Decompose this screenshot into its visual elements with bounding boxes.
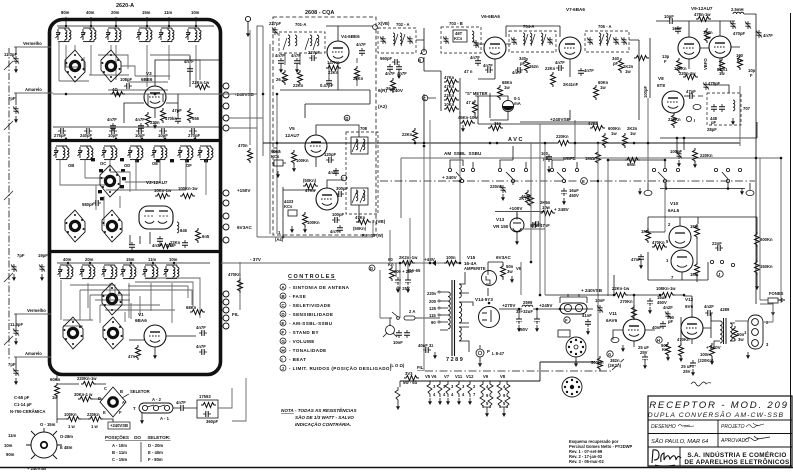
svg-text:22Kn: 22Kn [402,132,413,137]
svg-text:V8: V8 [658,76,664,81]
svg-text:A - 10m: A - 10m [112,443,127,448]
svg-text:X(VB): X(VB) [378,21,390,26]
svg-text:+ 240VSB: + 240VSB [581,288,603,293]
svg-text:C: C [104,386,107,391]
svg-text:220v: 220v [427,291,437,296]
svg-text:V2-12AU7: V2-12AU7 [146,180,168,185]
svg-text:H: H [657,338,660,343]
svg-text:6T8: 6T8 [657,83,665,88]
svg-text:Vermelho: Vermelho [27,308,46,313]
svg-text:100n: 100n [700,352,710,357]
svg-text:220n-1w: 220n-1w [679,71,696,76]
svg-text:V9-12AU7: V9-12AU7 [691,6,713,11]
svg-text:2K2n -1w: 2K2n -1w [399,255,418,260]
svg-text:470n: 470n [238,143,248,148]
svg-text:470pF: 470pF [733,31,746,36]
svg-text:C - 15m: C - 15m [112,457,127,462]
svg-text:PROJETO: PROJETO [721,424,745,430]
svg-text:30Kn-1 w: 30Kn-1 w [74,392,93,397]
svg-text:120pF: 120pF [324,152,337,157]
svg-text:20m: 20m [111,10,120,15]
svg-text:FIL: FIL [417,365,424,370]
svg-text:P: P [487,349,490,354]
svg-text:OF: OF [186,163,192,168]
svg-text:11m: 11m [148,257,156,262]
svg-text:3w: 3w [738,337,744,342]
svg-text:V12: V12 [466,374,474,379]
svg-text:227pF: 227pF [269,21,282,26]
svg-text:11m: 11m [164,10,172,15]
svg-text:100n: 100n [446,255,456,260]
svg-text:150Kn: 150Kn [760,264,773,269]
svg-text:SELETOR: SELETOR [130,389,150,394]
svg-text:10nF: 10nF [393,340,403,345]
svg-text:B: B [281,294,285,299]
svg-text:270pF: 270pF [188,133,201,138]
svg-text:V13: V13 [496,217,505,222]
svg-text:47Kn: 47Kn [355,215,366,220]
svg-text:V8: V8 [500,374,506,379]
svg-text:4n7F: 4n7F [176,400,186,405]
svg-text:I: I [342,176,343,181]
svg-text:E: E [103,410,106,415]
svg-text:E: E [582,179,585,184]
svg-text:6AL5: 6AL5 [668,208,680,213]
svg-text:10Kn: 10Kn [444,102,455,107]
svg-text:4n7F: 4n7F [584,68,594,73]
svg-text:1w: 1w [600,85,606,90]
svg-text:45Kn-10w: 45Kn-10w [458,115,478,120]
svg-text:+ 248V: + 248V [554,207,570,212]
svg-text:1Mn: 1Mn [690,224,699,229]
svg-text:4289: 4289 [720,307,730,312]
svg-text:- VOLUME: - VOLUME [289,339,315,344]
svg-text:- BEAT: - BEAT [289,357,306,362]
svg-text:H: H [281,348,285,353]
svg-text:22Kn: 22Kn [328,70,339,75]
svg-text:Kn: Kn [388,262,394,267]
svg-text:Amarelo: Amarelo [25,351,42,356]
svg-text:+ 240V: + 240V [442,175,458,180]
svg-text:1w: 1w [504,85,510,90]
svg-text:90: 90 [431,320,436,325]
svg-text:220Kn: 220Kn [668,117,681,122]
svg-text:4n7F: 4n7F [763,33,773,38]
svg-text:3w: 3w [507,269,513,274]
svg-text:115: 115 [429,313,436,318]
svg-text:V15: V15 [467,255,476,260]
svg-text:10pF: 10pF [158,133,168,138]
svg-text:10nF: 10nF [595,298,605,303]
svg-text:262n: 262n [529,64,539,69]
svg-text:200 + 200: 200 + 200 [394,269,413,274]
svg-text:25V: 25V [683,369,691,374]
svg-text:19pF: 19pF [38,253,48,258]
svg-text:22nF: 22nF [712,241,722,246]
svg-text:G: G [608,352,611,357]
svg-text:220Kn-1w: 220Kn-1w [77,376,97,381]
svg-text:POSIÇÕES DO SELETOR:: POSIÇÕES DO SELETOR: [105,434,171,440]
svg-text:22Kn: 22Kn [353,76,364,81]
svg-text:KCs: KCs [284,204,293,209]
svg-text:VBFO: VBFO [703,58,708,70]
svg-text:10w: 10w [542,205,551,210]
svg-text:4n7F: 4n7F [385,71,395,76]
svg-text:2620-A: 2620-A [116,3,134,9]
svg-text:2 A: 2 A [409,309,415,314]
svg-text:OC: OC [100,161,106,166]
svg-text:E 48m: E 48m [60,445,73,450]
svg-text:- STAND BY: - STAND BY [289,330,319,335]
svg-text:108pF: 108pF [120,77,133,82]
svg-text:- SENSIBILIDADE: - SENSIBILIDADE [289,312,333,317]
svg-text:100pF: 100pF [332,212,345,217]
svg-text:4n7F: 4n7F [512,70,522,75]
svg-text:A: A [281,285,285,290]
svg-text:17593: 17593 [199,394,211,399]
svg-text:10Kn-1w: 10Kn-1w [154,188,172,193]
svg-text:100Kn: 100Kn [296,158,309,163]
svg-text:15m: 15m [126,257,135,262]
svg-text:F: F [281,330,284,335]
svg-text:580pF: 580pF [82,202,95,207]
svg-text:I: I [281,357,283,362]
svg-text:10pF: 10pF [664,14,674,19]
svg-text:1w: 1w [611,131,617,136]
svg-text:4n7F: 4n7F [275,53,285,58]
svg-text:560pF: 560pF [380,56,393,61]
svg-text:RECEPTOR - MOD. 209: RECEPTOR - MOD. 209 [649,400,789,411]
svg-text:80m: 80m [61,10,70,15]
svg-text:100Kn-1w: 100Kn-1w [178,186,198,191]
svg-text:NOTA: NOTA [281,408,294,413]
svg-text:A - 2: A - 2 [152,397,162,402]
svg-text:28pF: 28pF [707,127,717,132]
svg-text:470Kn: 470Kn [652,240,665,245]
svg-text:- AM-SSBL-SSBU: - AM-SSBL-SSBU [289,321,333,326]
svg-text:F - 80m: F - 80m [148,457,163,462]
svg-text:22Kn: 22Kn [444,93,455,98]
svg-text:(A2): (A2) [378,104,387,109]
svg-text:CONTROLES: CONTROLES [288,274,336,280]
svg-text:- TONALIDADE: - TONALIDADE [289,348,327,353]
svg-text:15m: 15m [142,10,151,15]
svg-text:FIL: FIL [232,312,239,317]
svg-text:47n: 47n [128,354,136,359]
svg-text:DESENHO: DESENHO [651,424,676,430]
svg-text:V5 V6: V5 V6 [425,374,437,379]
svg-text:O - 15m: O - 15m [40,422,56,427]
svg-text:47nF: 47nF [631,257,641,262]
svg-text:702 - A: 702 - A [396,22,410,27]
svg-text:360pF: 360pF [206,419,219,424]
svg-text:+ 240VSB: + 240VSB [27,466,46,471]
svg-text:DUPLA CONVERSÃO AM-CW-SSB: DUPLA CONVERSÃO AM-CW-SSB [648,410,784,419]
svg-text:1Mn: 1Mn [641,229,650,234]
svg-text:5w - 6a: 5w - 6a [403,380,418,385]
svg-text:V11: V11 [609,311,617,316]
svg-text:6n5: 6n5 [202,234,210,239]
svg-text:4n7F: 4n7F [196,325,206,330]
svg-text:10m: 10m [169,257,178,262]
svg-text:V11: V11 [455,374,463,379]
svg-text:6Mn: 6Mn [627,162,636,167]
svg-text:4n7F: 4n7F [330,229,340,234]
svg-text:(L O Ω): (L O Ω) [390,363,405,368]
svg-text:AM SSBL SSBU: AM SSBL SSBU [444,151,482,156]
svg-text:701-A: 701-A [295,22,306,27]
svg-text:Amarelo: Amarelo [25,87,42,92]
svg-text:D: D [370,266,373,271]
svg-text:1w: 1w [630,131,636,136]
svg-text:500Kn: 500Kn [591,360,604,365]
svg-text:V6-6BA6: V6-6BA6 [481,14,500,19]
svg-text:- FASE: - FASE [289,294,306,299]
svg-text:B - 11m: B - 11m [112,450,127,455]
svg-text:2 (VB): 2 (VB) [372,219,386,224]
svg-text:22Kn: 22Kn [545,66,556,71]
svg-text:1w: 1w [719,71,725,76]
svg-text:4n7F: 4n7F [328,170,338,175]
svg-text:1MΩn: 1MΩn [585,156,597,161]
svg-text:+270V: +270V [502,303,516,308]
svg-text:A V C: A V C [508,137,522,143]
svg-text:+150V: +150V [237,188,251,193]
svg-text:L 8-47: L 8-47 [492,351,505,356]
svg-text:6V3AC: 6V3AC [237,225,252,230]
svg-text:47Kn: 47Kn [444,84,455,89]
svg-text:4n2F: 4n2F [663,305,673,310]
svg-text:22Kn: 22Kn [293,83,304,88]
svg-text:4n7F: 4n7F [135,117,145,122]
svg-text:F: F [750,73,753,78]
svg-text:4n7F: 4n7F [184,59,194,64]
svg-text:100pF: 100pF [670,149,683,154]
svg-text:22Kn: 22Kn [170,240,181,245]
svg-text:10pF: 10pF [108,133,118,138]
svg-text:4n7F: 4n7F [470,55,480,60]
svg-text:6BE6: 6BE6 [141,77,153,82]
svg-text:10nF: 10nF [672,26,682,31]
svg-text:270Kn: 270Kn [620,299,633,304]
svg-text:WBFD: WBFD [563,156,576,161]
svg-text:60Kn: 60Kn [50,377,61,382]
svg-text:450V: 450V [569,193,579,198]
svg-text:200: 200 [429,299,437,304]
svg-text:1 w: 1 w [68,424,75,429]
svg-text:68Kn: 68Kn [186,305,197,310]
svg-text:227pF: 227pF [308,50,321,55]
svg-text:2599: 2599 [523,300,533,305]
svg-text:V7: V7 [444,374,450,379]
svg-text:O-28m: O-28m [60,434,73,439]
svg-text:7pF: 7pF [8,96,16,101]
svg-text:2608 - CQA: 2608 - CQA [305,10,334,16]
svg-text:40m: 40m [63,257,72,262]
svg-text:C1-14 pF: C1-14 pF [14,402,32,407]
svg-text:Kn: Kn [737,58,743,63]
svg-text:V3: V3 [146,71,152,76]
svg-text:V14-5Y3: V14-5Y3 [475,297,493,302]
svg-text:1Mn: 1Mn [690,272,699,277]
svg-text:KCs: KCs [271,154,280,159]
svg-text:T: T [133,406,136,411]
svg-text:47pF: 47pF [172,108,182,113]
svg-text:V9: V9 [483,374,489,379]
svg-text:7pF: 7pF [17,253,25,258]
svg-text:220nF: 220nF [490,184,503,189]
svg-text:707: 707 [743,106,751,111]
svg-text:240pF: 240pF [80,133,93,138]
svg-text:2.5mH: 2.5mH [731,7,744,12]
svg-text:- SINTONIA DE ANTENA: - SINTONIA DE ANTENA [289,285,350,290]
svg-text:OD: OD [124,163,130,168]
svg-text:(2K2n): (2K2n) [608,363,622,368]
svg-text:F: F [565,318,568,323]
svg-text:41nF: 41nF [582,313,592,318]
svg-text:704-A: 704-A [523,24,534,29]
svg-text:(50Kn): (50Kn) [353,226,367,231]
svg-text:4n7F: 4n7F [196,344,206,349]
svg-text:1w: 1w [705,35,711,40]
svg-text:220Kn: 220Kn [556,134,569,139]
svg-text:E - 40m: E - 40m [148,450,163,455]
svg-text:4n2F: 4n2F [704,304,714,309]
svg-text:VR 150: VR 150 [493,224,509,229]
svg-text:INDICAÇÃO CONTRÁRIA.: INDICAÇÃO CONTRÁRIA. [295,421,351,427]
svg-text:S.A. INDÚSTRIA E COMÉRCIO: S.A. INDÚSTRIA E COMÉRCIO [687,450,786,459]
svg-text:(50Kn): (50Kn) [303,178,317,183]
svg-text:600Kn: 600Kn [760,237,773,242]
svg-text:J: J [281,366,284,371]
svg-text:10m: 10m [4,443,13,448]
svg-text:12AU7: 12AU7 [285,133,300,138]
svg-text:47Kn: 47Kn [305,188,316,193]
svg-text:703 - B: 703 - B [449,21,463,26]
svg-text:11.5pF: 11.5pF [10,322,23,327]
svg-text:SÃO DE 1/3 WATT - SALVO: SÃO DE 1/3 WATT - SALVO [295,414,354,420]
svg-text:C: C [423,96,426,101]
svg-text:40nF: 40nF [652,325,662,330]
svg-text:20m: 20m [85,257,94,262]
svg-text:10m: 10m [191,10,200,15]
svg-text:108Kn-1w: 108Kn-1w [656,286,676,291]
svg-text:V5: V5 [289,126,295,131]
svg-text:220Kn: 220Kn [87,412,100,417]
svg-text:F: F [664,59,667,64]
svg-text:D: D [345,116,348,121]
svg-text:11.3pF: 11.3pF [4,52,17,57]
svg-text:4n7F: 4n7F [356,42,366,47]
svg-text:OE: OE [152,161,158,166]
svg-text:KCs: KCs [454,36,463,41]
svg-text:pF: pF [668,319,674,324]
svg-text:47pF: 47pF [686,89,696,94]
svg-text:2K41nF: 2K41nF [563,82,579,87]
svg-text:4n7F: 4n7F [483,63,493,68]
svg-text:C: C [281,303,285,308]
svg-text:6V3AC: 6V3AC [496,255,511,260]
svg-text:- SELETIVIDADE: - SELETIVIDADE [289,303,331,308]
svg-text:mA: mA [514,101,521,106]
svg-text:1 w: 1 w [91,424,98,429]
svg-text:26.2n: 26.2n [276,77,287,82]
svg-text:470Kn: 470Kn [228,272,241,277]
svg-text:V1: V1 [138,312,144,317]
svg-text:220Kn: 220Kn [700,153,713,158]
svg-text:10pF: 10pF [135,133,145,138]
svg-text:+245V: +245V [539,303,553,308]
svg-text:470Kn: 470Kn [677,337,690,342]
svg-text:C-65 pF: C-65 pF [14,395,30,400]
svg-text:A: A [122,400,125,405]
svg-text:0.47pF: 0.47pF [320,83,334,88]
svg-text:100Kn: 100Kn [307,220,320,225]
svg-text:APROVADO: APROVADO [720,438,749,444]
svg-text:25V: 25V [640,350,648,355]
svg-text:V10: V10 [670,201,679,206]
svg-text:4n7F: 4n7F [107,117,117,122]
svg-text:A - 1: A - 1 [160,416,170,421]
svg-text:100Kn: 100Kn [64,412,77,417]
svg-text:300pF: 300pF [336,186,349,191]
svg-text:4n7F: 4n7F [555,60,565,65]
svg-text:- LIMIT. RUIDOS (POSIÇÃO DESLI: - LIMIT. RUIDOS (POSIÇÃO DESLIGADO) [289,365,392,371]
svg-text:pF: pF [613,61,619,66]
svg-text:708: 708 [360,126,368,131]
svg-text:I: I [694,118,695,123]
svg-text:6BA6: 6BA6 [135,318,147,323]
svg-text:47nF: 47nF [530,223,540,228]
svg-text:SÃO PAULO, MAR 64: SÃO PAULO, MAR 64 [651,438,708,445]
svg-text:D - 20m: D - 20m [148,443,163,448]
svg-text:D: D [281,312,285,317]
svg-text:DE APARELHOS ELETRÔNICOS: DE APARELHOS ELETRÔNICOS [684,457,790,466]
svg-text:478n-1w: 478n-1w [694,12,711,17]
svg-text:OB: OB [68,163,74,168]
svg-text:Vermelho: Vermelho [23,41,42,46]
svg-text:D: D [98,396,101,401]
svg-text:V4-6BE6: V4-6BE6 [341,34,360,39]
svg-text:+100V: +100V [509,206,523,211]
svg-text:40m: 40m [86,10,95,15]
svg-text:7 2 8 9: 7 2 8 9 [446,357,463,363]
svg-text:+240VSB: +240VSB [110,423,128,428]
svg-text:11m: 11m [8,433,16,438]
svg-text:- TODAS AS RESISTÊNCIAS: - TODAS AS RESISTÊNCIAS [295,406,357,413]
svg-text:40nF 3z: 40nF 3z [418,343,433,348]
svg-text:AMPERITE: AMPERITE [464,266,486,271]
svg-text:B: B [120,389,123,394]
svg-text:275pF: 275pF [54,133,67,138]
svg-text:90m: 90m [6,452,15,457]
svg-text:"S" METER: "S" METER [465,91,488,96]
svg-text:V7-6BA6: V7-6BA6 [566,7,585,12]
svg-text:22Kn-1w: 22Kn-1w [192,80,210,85]
svg-text:705 - A: 705 - A [598,24,612,29]
svg-text:4Ω: 4Ω [112,87,118,92]
svg-text:E: E [281,321,284,326]
svg-text:G: G [281,339,285,344]
svg-text:47 n: 47 n [464,69,473,74]
svg-text:N-750-CERÂMICA: N-750-CERÂMICA [10,409,45,414]
svg-text:F: F [119,410,122,415]
svg-text:47Kn: 47Kn [444,75,455,80]
svg-text:1w: 1w [625,69,631,74]
svg-text:6AV6: 6AV6 [606,318,618,323]
svg-text:846: 846 [180,228,188,233]
svg-text:+240VSB: +240VSB [550,117,570,122]
